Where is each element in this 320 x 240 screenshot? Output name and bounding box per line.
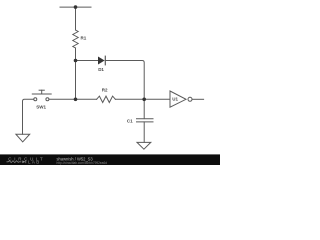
svg-text:LAB: LAB bbox=[28, 159, 41, 164]
svg-text:SW1: SW1 bbox=[36, 105, 46, 110]
svg-text:http://circuitlab.com/c6rbh799: http://circuitlab.com/c6rbh7992ea6d bbox=[57, 161, 108, 165]
svg-text:D1: D1 bbox=[98, 67, 104, 72]
svg-text:R2: R2 bbox=[102, 88, 108, 93]
svg-text:U1: U1 bbox=[172, 96, 178, 101]
svg-text:R1: R1 bbox=[81, 36, 87, 41]
svg-text:C1: C1 bbox=[127, 119, 133, 124]
